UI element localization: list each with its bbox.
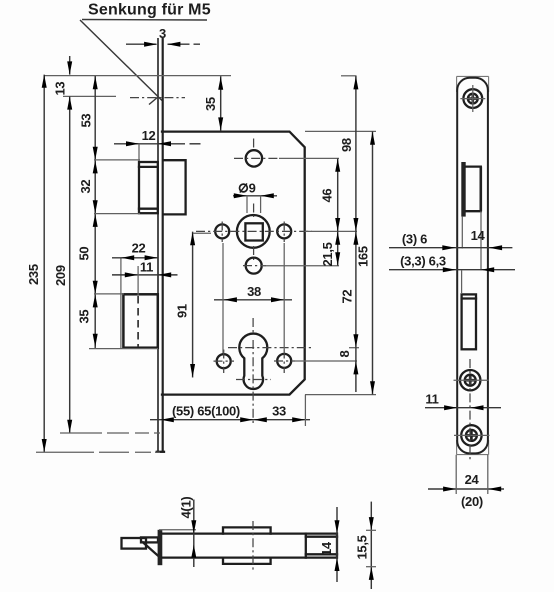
svg-text:46: 46 <box>320 189 335 203</box>
cylinder row small circle left <box>217 354 231 368</box>
svg-text:91: 91 <box>175 304 190 318</box>
latch bevel <box>143 542 158 555</box>
top hole centerline <box>234 157 279 159</box>
dimension 35 (top right of faceplate) <box>203 76 223 131</box>
dimension 13 <box>53 56 73 96</box>
dimension 21,5 <box>320 231 340 266</box>
svg-text:(3,3) 6,3: (3,3) 6,3 <box>400 254 446 269</box>
svg-text:12: 12 <box>142 128 156 143</box>
svg-text:8: 8 <box>337 351 352 358</box>
dimension 72 <box>339 231 358 347</box>
dimension 11 (plate) <box>425 392 501 411</box>
dimension 235 <box>26 75 47 453</box>
dimension 38 <box>214 243 292 353</box>
dimension 8 <box>337 348 358 392</box>
centerline countersink hole <box>130 97 185 99</box>
dimension 11 (deadbolt thrown) <box>112 260 178 296</box>
svg-text:38: 38 <box>247 284 261 299</box>
follower boss bottom <box>223 558 271 564</box>
svg-text:24: 24 <box>465 472 480 487</box>
top hole <box>246 150 262 166</box>
svg-text:22: 22 <box>132 241 146 256</box>
dimension 33 <box>254 395 311 426</box>
svg-text:11: 11 <box>425 392 438 407</box>
dimension (3) 6 / 14 <box>389 228 512 250</box>
vertical centerline follower column <box>253 204 255 261</box>
flange top extension <box>159 529 196 531</box>
svg-text:209: 209 <box>53 265 68 286</box>
deadbolt window on plate <box>462 270 476 349</box>
svg-text:4(1): 4(1) <box>178 497 193 519</box>
cylinder row centerline <box>228 347 312 349</box>
svg-text:98: 98 <box>339 138 354 152</box>
profile cylinder hole <box>239 334 267 389</box>
extension lines latch window <box>461 217 463 249</box>
dimension 12 (latch protrusion) <box>114 128 201 161</box>
dimension 53 <box>79 76 98 160</box>
svg-text:32: 32 <box>78 180 93 194</box>
svg-text:165: 165 <box>356 246 371 267</box>
dimension 165 <box>356 131 376 394</box>
latch window on plate <box>466 167 481 212</box>
inner vertical (cover edge) <box>305 534 307 558</box>
svg-text:14: 14 <box>471 228 486 243</box>
svg-text:Senkung für M5: Senkung für M5 <box>88 2 211 19</box>
dimension 32 <box>78 160 98 214</box>
lock case outline <box>162 132 305 395</box>
screw 2 <box>454 370 489 390</box>
small circle ticks row2 <box>214 350 296 374</box>
svg-text:53: 53 <box>79 114 94 128</box>
screw 3 <box>454 425 490 445</box>
extension line faceplate bottom <box>36 451 160 453</box>
faceplate edge-on flange <box>158 530 163 565</box>
follower row centerline <box>196 230 312 232</box>
hole below follower <box>246 258 262 274</box>
dimension (55) 65 (100) backset <box>150 404 254 423</box>
cylinder row small circle right <box>277 354 291 368</box>
latch guide box in case <box>164 160 186 214</box>
dimension 24 / (20) <box>428 455 504 509</box>
latch head (Falle) <box>139 162 158 213</box>
svg-text:72: 72 <box>339 290 354 304</box>
svg-text:21,5: 21,5 <box>320 242 335 266</box>
screws centerline <box>469 359 471 460</box>
inner cover lines <box>306 536 337 538</box>
svg-text:3: 3 <box>159 26 166 41</box>
svg-text:13: 13 <box>53 82 68 96</box>
extension line top screw center <box>63 95 116 97</box>
spindle square <box>245 223 262 240</box>
latch bar on plate <box>461 162 465 217</box>
dimension 98 <box>339 76 358 231</box>
small circle vertical ticks row1 <box>221 222 223 243</box>
dimension 50 <box>77 214 98 295</box>
dimension 209 <box>53 96 72 433</box>
dimension 35 left <box>77 294 98 348</box>
dimension 4(1) <box>178 497 196 567</box>
top extension line y76 <box>44 75 231 77</box>
follower row small circle right <box>277 224 291 238</box>
faceplate front view (double line) <box>157 38 164 452</box>
follower axis <box>252 521 254 571</box>
dimension 46 <box>320 158 341 231</box>
leader note "Senkung für M5" <box>80 2 211 105</box>
deadbolt (Riegel) <box>121 258 158 348</box>
follower circle <box>237 215 270 248</box>
svg-text:15,5: 15,5 <box>354 535 369 559</box>
case body bottom view <box>162 534 337 558</box>
top screw <box>460 85 485 112</box>
dimension 22 (deadbolt) <box>112 241 158 261</box>
dimension ø9 <box>233 181 277 213</box>
extension line bottom screw <box>60 432 160 434</box>
follower row small circle left <box>215 224 229 238</box>
svg-text:14: 14 <box>319 541 334 556</box>
dimension 91 <box>175 232 212 378</box>
dimension (3,3) 6,3 <box>389 254 515 273</box>
svg-text:9: 9 <box>249 181 256 196</box>
chain extension lines <box>89 160 158 349</box>
svg-text:33: 33 <box>272 404 286 419</box>
svg-text:(55) 65(100): (55) 65(100) <box>172 404 240 419</box>
follower boss top <box>223 527 271 533</box>
svg-text:11: 11 <box>140 260 153 275</box>
faceplate rounded contour <box>457 78 488 454</box>
svg-text:50: 50 <box>77 247 92 261</box>
dimension 15,5 <box>354 502 376 589</box>
dimension 3 (faceplate thickness) <box>126 26 200 47</box>
svg-text:235: 235 <box>26 264 41 285</box>
latch bolt tip <box>122 538 147 549</box>
latch face band <box>141 537 158 542</box>
right side extension lines <box>262 131 376 394</box>
faceplate outer thin rect <box>457 76 489 454</box>
svg-text:(3) 6: (3) 6 <box>402 232 427 247</box>
cylinder column centerline <box>252 318 254 425</box>
svg-text:(20): (20) <box>461 494 483 509</box>
svg-text:35: 35 <box>77 310 92 324</box>
svg-text:35: 35 <box>203 97 218 111</box>
dimension 14 (bottom view) <box>319 507 340 582</box>
